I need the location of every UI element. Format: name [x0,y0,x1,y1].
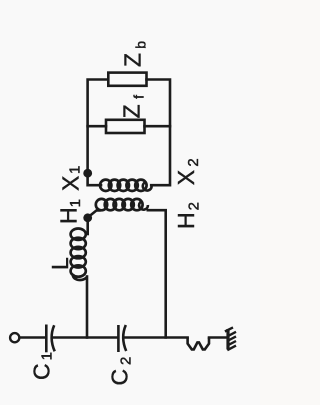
resistor small choke near ground [188,338,209,350]
wire Zf right lead [145,125,171,128]
svg-text:L: L [47,257,73,270]
inductor L coil [71,229,87,281]
node H1 junction dot [83,213,92,222]
wire choke to ground [209,336,228,339]
wire H-coil left lead from H1 node [88,210,100,217]
impedance Zb box [108,73,146,86]
capacitor C2 plates [118,325,126,352]
transformer X winding (top coil) [100,180,152,191]
transformer H winding (bottom coil) [96,199,148,210]
wire L bottom lead down to rail [86,277,89,338]
wire Zf left lead [88,125,106,128]
ground bar [226,329,229,350]
ground hatches [225,327,236,350]
wire H-coil right lead and H2 rail down [148,210,166,337]
input terminal circle [10,333,19,342]
wire L top lead [86,218,89,234]
wire bottom rail: C2 to choke [125,336,188,339]
wire right rail: Zb right lead, right rail down, X-coil right lead [147,80,171,186]
wire left rail: Zb lead, left rail down, X-coil left lead [88,80,108,186]
node X1 junction dot [83,169,92,178]
wire bottom rail: C1 to C2 [53,336,118,339]
impedance Zf box [106,120,145,133]
capacitor C1 plates [46,325,54,353]
wire bottom rail: terminal to C1 [20,336,45,339]
